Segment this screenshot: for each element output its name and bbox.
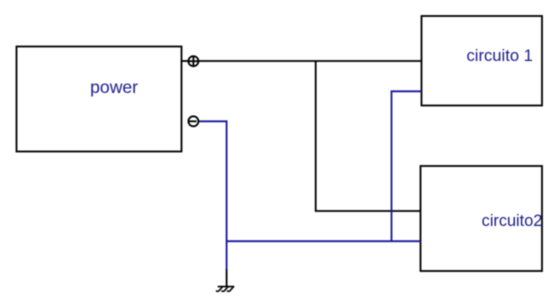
svg-text:power: power <box>90 77 138 97</box>
svg-text:circuito 1: circuito 1 <box>466 46 532 65</box>
svg-text:circuito2: circuito2 <box>482 212 543 230</box>
